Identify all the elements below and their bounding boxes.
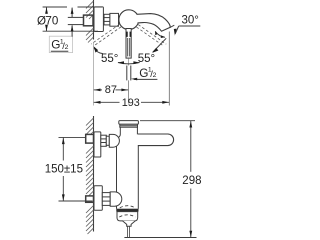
svg-text:70: 70 (45, 15, 58, 28)
svg-text:2: 2 (65, 44, 69, 51)
svg-text:87: 87 (105, 84, 117, 96)
svg-text:55°: 55° (101, 53, 118, 65)
svg-text:193: 193 (122, 97, 140, 109)
svg-text:2: 2 (153, 72, 157, 79)
svg-text:55°: 55° (138, 53, 155, 65)
svg-text:30°: 30° (182, 15, 199, 27)
svg-text:298: 298 (182, 175, 201, 187)
svg-text:150±15: 150±15 (45, 163, 83, 175)
